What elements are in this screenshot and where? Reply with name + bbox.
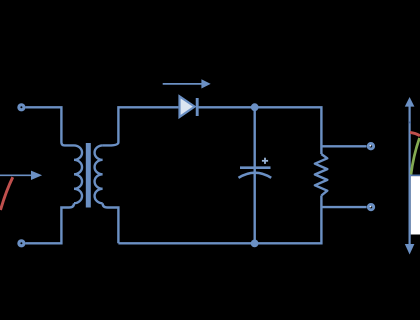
- resistor R1: [315, 154, 327, 195]
- current direction arrow: [163, 79, 211, 88]
- input sine wave (red, clipped): [1, 177, 13, 210]
- output terminal TP3: [368, 144, 373, 149]
- wire secondary bottom: [103, 203, 119, 243]
- output terminal TP4: [368, 204, 373, 209]
- wire output tap bottom: [321, 206, 366, 208]
- output plot box (white, clipped): [411, 176, 420, 234]
- node junction top (capacitor tap): [251, 103, 259, 111]
- output discharge line (green, clipped): [411, 138, 420, 174]
- input signal arrow: [0, 171, 42, 180]
- output axis tick: [409, 122, 411, 124]
- output plot box top border: [410, 174, 420, 176]
- output axis double arrow: [405, 97, 415, 255]
- transformer T1 primary coil: [74, 145, 82, 203]
- wire primary bottom: [25, 203, 74, 243]
- input terminal TP1 (top-left): [19, 105, 24, 110]
- capacitor C1 curved plate: [239, 173, 272, 178]
- wire output tap top: [321, 145, 366, 147]
- diode D1: [180, 96, 198, 117]
- transformer T1 secondary coil: [95, 145, 103, 203]
- wire resistor to bottom: [118, 196, 321, 244]
- wire capacitor branch: [253, 107, 255, 243]
- transformer T1 core: [86, 143, 91, 208]
- output ripple curve (red, clipped): [410, 132, 420, 135]
- node junction bottom: [251, 239, 259, 247]
- wire diode cathode to top-right: [199, 107, 322, 154]
- capacitor C1 top plate: [240, 166, 271, 169]
- input terminal TP2 (bottom-left): [19, 241, 24, 246]
- capacitor C1 plus sign: [262, 158, 268, 164]
- wire secondary top: [103, 107, 179, 145]
- wire primary loop: [25, 107, 74, 145]
